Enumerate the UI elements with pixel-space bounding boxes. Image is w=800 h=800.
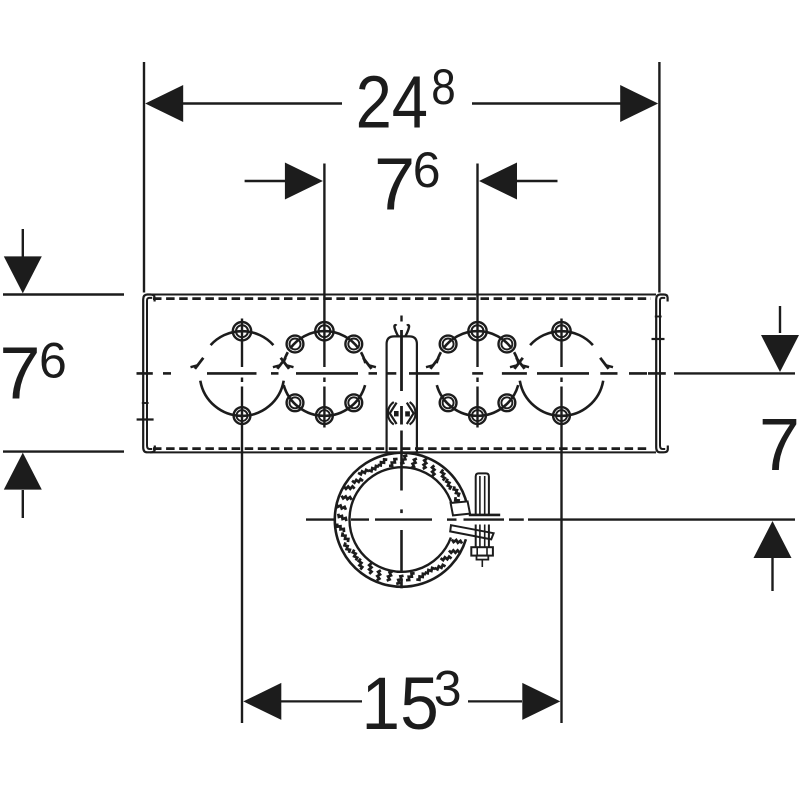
svg-text:15: 15: [361, 663, 438, 745]
clamp bolt: lower shaft: [475, 525, 477, 548]
knockout hole group 1: break ticks: [191, 358, 204, 369]
knockout hole group 3: top arc: [443, 331, 511, 348]
rail right profile joint tick: [652, 338, 665, 340]
strap spring hook right: [405, 325, 409, 336]
svg-text:7: 7: [374, 143, 415, 226]
knockout group 3: top hole: [468, 322, 486, 340]
dimension 70 right: lower arrowhead (points up): [754, 521, 792, 558]
rail horizontal centerline (dash-dot): [137, 372, 153, 375]
dimension 248: line left segment: [181, 102, 342, 104]
knockout group 2: top hole: [315, 322, 333, 340]
knockout hole group 3: dashed arc right: [514, 352, 518, 363]
dimension 153: line right segment: [468, 700, 522, 702]
clamp bolt: washer under flange: [469, 514, 500, 517]
dimension 76 left: extension line top: [3, 293, 124, 295]
dimension 153: arrowhead left: [243, 683, 281, 720]
knockout hole group 3: vertical centerline / dim 76 extension: [476, 164, 478, 368]
clamp bolt: upper shaft: [476, 473, 489, 514]
pipe clamp: upper flange tab: [451, 501, 470, 515]
knockout hole group 1: vertical centerline: [241, 319, 243, 368]
knockout hole group 4: top screw hole: [552, 322, 570, 340]
dimension 153: line left segment: [281, 700, 362, 702]
rail bottom edge hidden dashed line: [153, 447, 649, 450]
dimension 248: arrowhead left: [145, 85, 183, 122]
dimension 153: extension line right (C4 centerline extension): [560, 432, 562, 724]
dimension 76 left: upper arrow stem: [22, 229, 24, 258]
rail left profile slot tick: [142, 402, 149, 404]
dimension 248: arrowhead right: [620, 85, 658, 122]
knockout group 2: break ticks: [273, 358, 286, 369]
knockout hole group 2: dashed arc right: [361, 352, 365, 363]
pipe clamp: outer ring arc: [335, 453, 468, 587]
dimension 248: extension line right: [658, 62, 660, 293]
svg-text:24: 24: [356, 60, 428, 143]
knockout hole group 4: break ticks: [510, 358, 523, 369]
knockout hole group 1: bottom arc: [200, 381, 283, 416]
dimension 153: extension line left (C1 centerline extension): [241, 432, 243, 724]
knockout group 3: upper-left hole: [440, 336, 457, 353]
svg-text:7: 7: [759, 403, 800, 486]
rail left end profile: inner wall: [147, 298, 152, 449]
strap click-lock symbol: left slot: [394, 411, 399, 416]
clamp bolt: upper shaft thread lines: [479, 476, 481, 515]
dimension 248: line right segment: [472, 102, 622, 104]
knockout hole group 3: dashed arc left: [437, 352, 441, 363]
knockout hole group 4: top arc: [530, 331, 593, 345]
knockout hole group 2: top arc: [290, 331, 358, 348]
rail right end profile: outer wall: [656, 295, 668, 453]
svg-text:3: 3: [434, 660, 462, 716]
pipe clamp: inner circle arc: [349, 467, 452, 572]
rail top edge solid line: [150, 294, 656, 296]
dimension 76 left: upper arrowhead (points down): [4, 256, 42, 293]
dimension 76 top: line right: [516, 180, 558, 182]
knockout group 2: upper-left hole: [287, 336, 304, 353]
rail left profile joint tick: [137, 418, 154, 420]
clamp bolt: centerline stub: [481, 560, 483, 567]
dimension 76 left: lower arrow stem: [22, 490, 24, 518]
svg-text:7: 7: [0, 332, 41, 415]
dimension 76 left: extension line bottom: [3, 450, 124, 452]
pipe clamp: lower flange tab: [450, 525, 493, 539]
knockout group 2: upper-right hole: [345, 336, 362, 353]
rail left end profile: outer wall: [143, 295, 155, 453]
knockout hole group 2: vertical centerline / dim 76 extension: [323, 164, 325, 368]
dimension 76 left: lower arrowhead (points up): [4, 453, 42, 490]
knockout hole group 4: vertical centerline: [560, 319, 562, 368]
strap spring hook left: [394, 325, 398, 336]
dimension 70 right: reference line top: [674, 372, 795, 374]
dimension 70 right: upper arrow stem: [779, 306, 781, 333]
knockout group 3: bottom hole: [469, 407, 486, 424]
knockout hole group 1: top arc: [211, 331, 274, 345]
strap click-lock symbol: right slot: [405, 411, 410, 416]
strap outline: [387, 336, 417, 452]
knockout group 3: break ticks: [426, 358, 439, 369]
clamp bolt: head washer: [477, 556, 489, 560]
rail bottom edge solid line: [150, 451, 656, 453]
knockout hole group 2: dashed arc left: [283, 352, 287, 363]
knockout group 2: lower-right hole: [345, 394, 362, 411]
strap click-lock symbol: left chevron: [390, 403, 397, 424]
svg-text:6: 6: [39, 333, 67, 389]
strap click-lock symbol: circle arcs: [410, 402, 416, 425]
dimension 76 top: line left: [245, 180, 287, 182]
rail right profile slot tick: [655, 316, 662, 318]
svg-text:6: 6: [413, 142, 441, 198]
strap click-lock symbol: center dash: [400, 406, 403, 425]
knockout group 3: lower-right hole: [499, 394, 516, 411]
knockout hole group 3: bottom arc: [437, 385, 518, 416]
dimension 248: extension line left: [143, 62, 145, 293]
clamp bolt: hex head: [471, 547, 493, 555]
dimension 70 right: reference line bottom: [528, 518, 795, 520]
rail top edge hidden dashed line: [153, 297, 651, 300]
knockout group 3: upper-right hole: [499, 336, 516, 353]
knockout group 2: bottom hole: [316, 407, 333, 424]
strap vertical centerline segments: [400, 316, 402, 322]
dimension 76 top: arrowhead left (points right): [285, 163, 323, 200]
knockout hole group 1: top screw hole: [233, 322, 251, 340]
knockout group 2: lower-left hole: [287, 394, 304, 411]
knockout group 3: lower-left hole: [440, 394, 457, 411]
strap click-lock symbol: right chevron: [407, 403, 414, 424]
rail right end profile: inner wall: [660, 298, 665, 449]
dimension 153: arrowhead right: [522, 683, 560, 720]
dimension 70 right: upper arrowhead (points down): [761, 335, 799, 372]
knockout hole group 4: bottom screw hole: [553, 407, 570, 424]
dimension 76 top: arrowhead right (points left): [479, 163, 517, 200]
svg-text:8: 8: [431, 58, 455, 114]
pipe clamp horizontal centerline (dash-dot): [306, 518, 335, 520]
dimension 70 right: lower arrow stem: [771, 558, 773, 591]
knockout hole group 2: bottom arc: [284, 385, 365, 416]
knockout hole group 4: bottom arc: [520, 381, 603, 416]
knockout hole group 1: bottom screw hole: [234, 407, 251, 424]
